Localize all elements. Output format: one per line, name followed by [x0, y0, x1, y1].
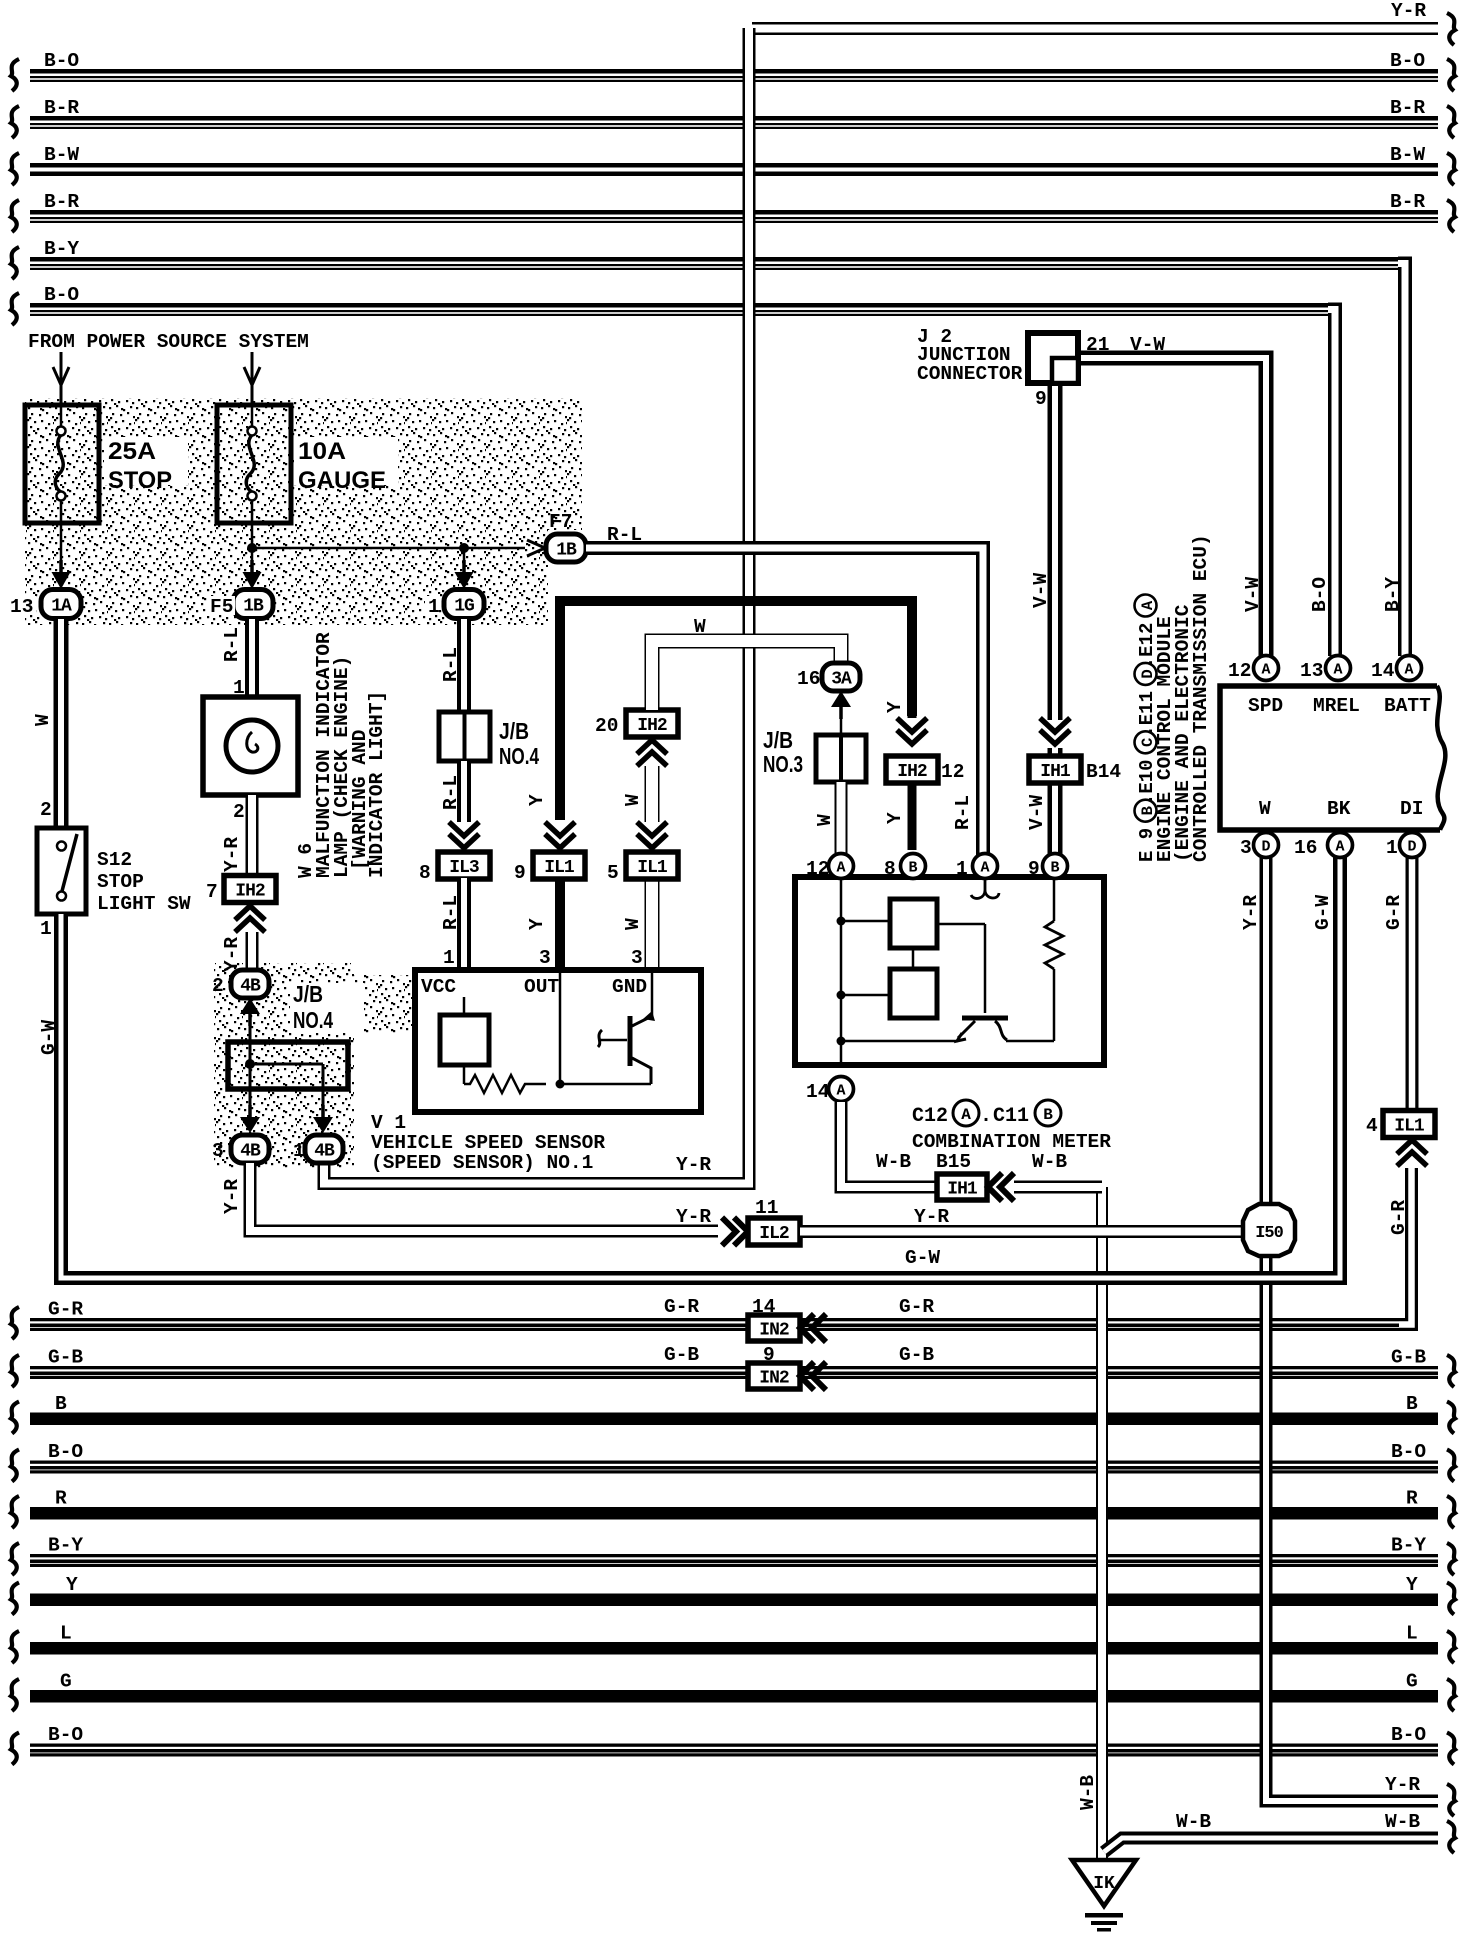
svg-text:13: 13: [10, 596, 33, 618]
svg-text:(SPEED SENSOR) NO.1: (SPEED SENSOR) NO.1: [371, 1152, 593, 1174]
junction block J/B NO.4 internal busbar: [228, 1042, 348, 1089]
svg-text:A: A: [961, 1106, 971, 1124]
svg-text:16: 16: [1294, 837, 1317, 859]
svg-text:G-R: G-R: [1383, 895, 1405, 930]
stop light switch S12: [37, 828, 86, 914]
svg-text:8: 8: [419, 862, 431, 884]
svg-text:SPD: SPD: [1248, 695, 1283, 717]
svg-text:G: G: [60, 1671, 72, 1693]
svg-text:OUT: OUT: [524, 976, 559, 998]
bus wire B (bottom): [30, 1413, 1438, 1426]
svg-text:A: A: [1139, 600, 1157, 610]
svg-text:L: L: [60, 1623, 72, 1645]
bus wire B-O (top row 6): [30, 303, 1328, 308]
svg-text:IN2: IN2: [759, 1321, 789, 1341]
svg-text:IN2: IN2: [759, 1369, 789, 1389]
svg-text:G-B: G-B: [664, 1344, 699, 1366]
bus wire G (bottom): [30, 1690, 1438, 1703]
chevron into IL2: [722, 1218, 736, 1246]
svg-text:G-B: G-B: [899, 1344, 934, 1366]
combination meter box: [795, 877, 1104, 1065]
svg-text:BK: BK: [1327, 798, 1351, 820]
svg-text:J/B: J/B: [293, 981, 323, 1007]
svg-text:1G: 1G: [454, 597, 474, 617]
svg-text:B-Y: B-Y: [1382, 577, 1404, 612]
svg-text:B-O: B-O: [1391, 1724, 1426, 1746]
svg-text:Y-R: Y-R: [676, 1206, 711, 1228]
svg-text:9: 9: [1035, 388, 1047, 410]
svg-text:G-R: G-R: [899, 1296, 934, 1318]
label 10A GAUGE: [294, 437, 398, 485]
connector 1 (1G): [444, 590, 484, 619]
svg-text:R-L: R-L: [440, 895, 462, 930]
svg-text:Y: Y: [526, 918, 548, 930]
svg-text:F7: F7: [549, 511, 572, 533]
wire 1G branch from gauge fuse: [463, 548, 466, 565]
svg-text:VCC: VCC: [421, 976, 456, 998]
svg-text:4B: 4B: [240, 977, 261, 997]
wire W-B IH1 to vertical: [1014, 1181, 1102, 1194]
svg-text:IH1: IH1: [1040, 762, 1071, 782]
wire fuse to connector 1A: [60, 523, 63, 565]
svg-text:1: 1: [1386, 837, 1398, 859]
bus wire B-O (top row 1): [30, 69, 1438, 74]
svg-text:IL1: IL1: [1394, 1117, 1425, 1137]
svg-text:MREL: MREL: [1313, 695, 1360, 717]
svg-text:W: W: [32, 714, 54, 726]
chevron into IH1 B14: [1040, 718, 1070, 732]
svg-text:C12: C12: [912, 1105, 948, 1128]
svg-text:Y-R: Y-R: [221, 1179, 243, 1214]
svg-text:G-B: G-B: [1391, 1347, 1426, 1369]
svg-text:B-O: B-O: [44, 284, 79, 306]
arrow into 3A: [831, 691, 851, 707]
bus wire B-Y (top row 5): [30, 257, 1398, 262]
bus wire G-R (bottom): [30, 1318, 1399, 1321]
svg-text:GND: GND: [612, 976, 647, 998]
label E9 E10 E11 E12 ENGINE CONTROL MODULE vertical: [1135, 595, 1159, 863]
junction block J/B NO.4 shading lower: [214, 963, 354, 1168]
svg-text:7: 7: [206, 881, 218, 903]
svg-text:12: 12: [941, 761, 964, 783]
wire R-L from IL3 to VSS pin 1: [457, 878, 471, 970]
svg-text:VEHICLE SPEED SENSOR: VEHICLE SPEED SENSOR: [371, 1132, 605, 1154]
svg-text:W-B: W-B: [1032, 1151, 1067, 1173]
junction connector J2: [1028, 333, 1078, 383]
svg-text:B14: B14: [1086, 761, 1121, 783]
svg-text:L: L: [1406, 1623, 1418, 1645]
svg-text:Y-R: Y-R: [676, 1154, 711, 1176]
svg-text:G-W: G-W: [38, 1020, 60, 1055]
svg-text:CONTROLLED TRANSMISSION ECU): CONTROLLED TRANSMISSION ECU): [1190, 534, 1212, 862]
meter internal resistor: [1053, 877, 1056, 921]
svg-text:Y: Y: [66, 1574, 78, 1596]
svg-text:13: 13: [1300, 660, 1323, 682]
svg-text:G: G: [1406, 1671, 1418, 1693]
svg-text:Y-R: Y-R: [221, 837, 243, 872]
wire branch to F7 1B: [252, 547, 525, 550]
svg-text:R-L: R-L: [607, 524, 642, 546]
svg-text:CONNECTOR: CONNECTOR: [917, 363, 1023, 385]
svg-text:B: B: [908, 860, 917, 877]
svg-text:B-O: B-O: [48, 1724, 83, 1746]
wire G-W from S12 across bottom to ECU pin 16: [61, 857, 1340, 1278]
meter internal gauge 2: [890, 969, 937, 1018]
svg-text:Y-R: Y-R: [914, 1206, 949, 1228]
label J/B NO.4 (lower): [290, 983, 364, 1033]
svg-text:A: A: [1335, 839, 1344, 856]
wire V-W from junction connector J2 pin 21 to ECU pin 12: [1076, 358, 1266, 656]
arrow into 4B: [240, 998, 260, 1014]
wire W from VSS GND up through IL1 and IH2: [645, 853, 660, 970]
wire W hairpin from IH2 to connector 3A: [652, 641, 841, 710]
svg-text:12: 12: [1228, 660, 1251, 682]
svg-text:G-R: G-R: [1388, 1200, 1410, 1235]
svg-text:W-B: W-B: [876, 1151, 911, 1173]
svg-text:W-B: W-B: [1077, 1775, 1099, 1810]
label 25A STOP: [104, 437, 188, 485]
VSS internal transistor: [651, 970, 654, 1018]
svg-text:IL3: IL3: [449, 858, 479, 878]
svg-text:C11: C11: [993, 1105, 1029, 1128]
fuse 10A GAUGE: [217, 405, 291, 523]
wire 4B to junction block NO.4: [249, 1014, 252, 1042]
svg-text:IH1: IH1: [947, 1180, 978, 1200]
svg-text:B: B: [1043, 1106, 1053, 1124]
wire G-R from bus up to connector IL1 pin 4 and ECU pin 1: [1399, 1168, 1412, 1325]
svg-text:Y: Y: [884, 701, 906, 713]
ground IK: [1072, 1860, 1136, 1906]
svg-text:W: W: [622, 918, 644, 930]
svg-text:5: 5: [607, 862, 619, 884]
wire Y thick from VSS OUT to combination meter pin 8: [555, 880, 565, 970]
svg-text:NO.4: NO.4: [293, 1007, 333, 1033]
wire G-W from ECU pin 16 down (right segment): [1333, 857, 1347, 1271]
svg-text:IH2: IH2: [897, 762, 927, 782]
svg-text:W-B: W-B: [1385, 1811, 1420, 1833]
junction node: [247, 543, 257, 553]
VSS internal regulator: [463, 997, 466, 1015]
svg-text:GAUGE: GAUGE: [298, 467, 386, 494]
svg-text:NO.3: NO.3: [763, 751, 803, 777]
wire Y-R from IL2 to I50: [800, 1225, 1260, 1238]
svg-text:1A: 1A: [51, 597, 72, 617]
wire W from 1A to stop light switch S12: [54, 619, 69, 828]
svg-text:3: 3: [1240, 837, 1252, 859]
connector F5 (1B): [233, 590, 273, 619]
svg-text:R: R: [55, 1488, 67, 1510]
svg-text:A: A: [1333, 662, 1342, 679]
svg-text:COMBINATION METER: COMBINATION METER: [912, 1131, 1111, 1153]
connector IH1 B14: [1029, 756, 1081, 783]
svg-text:A: A: [836, 1083, 845, 1100]
bus wire B-O (bottom): [30, 1461, 1438, 1464]
svg-text:4B: 4B: [240, 1142, 261, 1162]
svg-text:B: B: [1406, 1393, 1418, 1415]
wire 3A to junction block NO.3: [840, 707, 843, 735]
svg-text:R-L: R-L: [440, 647, 462, 682]
wire to connector 1 (4B): [322, 1089, 325, 1112]
VSS internal resistor: [464, 1075, 546, 1093]
svg-text:B-Y: B-Y: [44, 238, 79, 260]
svg-text:G-W: G-W: [1312, 895, 1334, 930]
svg-text:IL1: IL1: [544, 858, 575, 878]
svg-text:BATT: BATT: [1384, 695, 1431, 717]
svg-text:1B: 1B: [243, 597, 264, 617]
meter internal hook at pin 1: [971, 879, 999, 898]
svg-text:STOP: STOP: [97, 871, 144, 893]
svg-text:W: W: [814, 814, 836, 826]
bus wire Y (bottom): [30, 1594, 1438, 1607]
chevron into IH2 (Y wire): [897, 718, 927, 732]
bus wire G-B (bottom): [30, 1366, 1438, 1369]
bus wire B-O (bottom): [30, 1744, 1438, 1747]
chevron into IL1: [1397, 1140, 1427, 1154]
svg-text:B: B: [1050, 860, 1059, 877]
svg-text:20: 20: [595, 715, 618, 737]
svg-text:21: 21: [1086, 334, 1109, 356]
svg-text:B15: B15: [936, 1151, 971, 1173]
junction block J/B NO.3: [816, 735, 866, 782]
svg-text:D: D: [1261, 839, 1270, 856]
bus wire Y-R (top): [752, 22, 1438, 35]
meter internal transistor: [962, 1016, 1008, 1021]
svg-text:DI: DI: [1400, 798, 1423, 820]
bus wire B-R (top row 2): [30, 116, 1438, 121]
svg-text:INDICATOR LIGHT]: INDICATOR LIGHT]: [366, 691, 388, 878]
svg-text:W-B: W-B: [1176, 1811, 1211, 1833]
svg-text:IL1: IL1: [637, 858, 668, 878]
svg-text:B-O: B-O: [1390, 50, 1425, 72]
svg-text:W: W: [694, 616, 706, 638]
meter internal wiring to transistor: [937, 923, 985, 926]
bus wire R (bottom): [30, 1507, 1438, 1520]
svg-text:B-W: B-W: [44, 144, 79, 166]
chevron into IL3: [449, 822, 479, 836]
wire R-L from F7 to combination meter pin 1: [586, 548, 983, 856]
chevron out of IN2 (pointing left): [812, 1314, 826, 1342]
chevron into IH2 (W wire): [637, 740, 667, 754]
svg-text:Y: Y: [526, 794, 548, 806]
connector IH2 12: [886, 756, 938, 783]
svg-text:3: 3: [631, 947, 643, 969]
chevron into IH2: [235, 906, 265, 920]
wire W-B from connector IH1 B15 down to ground IK: [1096, 1187, 1108, 1860]
svg-text:9: 9: [514, 862, 526, 884]
svg-text:B-R: B-R: [44, 191, 79, 213]
chevron out of IH1 (pointing left): [1000, 1173, 1014, 1201]
svg-text:Y-R: Y-R: [221, 937, 243, 972]
wire R-L 1B to malfunction indicator lamp: [245, 619, 259, 697]
svg-text:IK: IK: [1093, 1874, 1115, 1894]
svg-text:IL2: IL2: [759, 1224, 789, 1244]
junction node to 1G: [459, 543, 469, 553]
svg-text:B-R: B-R: [1390, 97, 1425, 119]
svg-text:Y: Y: [884, 812, 906, 824]
chevron out of IN2 9 (pointing left): [812, 1362, 826, 1390]
svg-text:2: 2: [233, 801, 245, 823]
wire Y-R from ECU pin 3 down through I50 to bottom right: [1266, 857, 1438, 1801]
connector I50 octagon: [1243, 1204, 1295, 1256]
svg-text:V-W: V-W: [1130, 334, 1165, 356]
svg-text:G-W: G-W: [905, 1247, 940, 1269]
svg-text:B-R: B-R: [44, 97, 79, 119]
svg-text:G-B: G-B: [48, 1347, 83, 1369]
wire W-B from meter pin 14 to IH1 B15: [841, 1102, 935, 1187]
junction block J/B NO.4 (upper): [439, 712, 490, 761]
svg-text:B-R: B-R: [1390, 191, 1425, 213]
svg-text:IH2: IH2: [235, 882, 265, 902]
svg-text:1: 1: [443, 947, 455, 969]
svg-text:.: .: [980, 1105, 992, 1128]
meter internal left rail: [840, 877, 843, 1065]
bus wire B-W (top row 3): [30, 163, 1438, 168]
wire Y-R from connector 4B pin1 up and across top to right: [324, 28, 749, 1184]
svg-text:B-O: B-O: [48, 1441, 83, 1463]
svg-text:2: 2: [212, 975, 224, 997]
wire Y thick IH2 to meter pin 8: [908, 712, 917, 718]
svg-text:10A: 10A: [298, 438, 346, 465]
svg-text:G-R: G-R: [664, 1296, 699, 1318]
svg-text:V-W: V-W: [1026, 795, 1048, 830]
svg-text:R-L: R-L: [440, 775, 462, 810]
svg-text:Y-R: Y-R: [1385, 1774, 1420, 1796]
bus wire B-R (top row 4): [30, 210, 1438, 215]
svg-text:W: W: [622, 794, 644, 806]
wire R-L from J/B to IL3: [457, 761, 471, 822]
svg-text:G-R: G-R: [48, 1299, 83, 1321]
svg-text:B-Y: B-Y: [1391, 1535, 1426, 1557]
bus wire L (bottom): [30, 1642, 1438, 1655]
wire Y-R from 3(4B) to IL2: [250, 1163, 718, 1231]
svg-text:A: A: [836, 860, 845, 877]
svg-text:V 1: V 1: [371, 1112, 406, 1134]
svg-text:A: A: [1261, 662, 1270, 679]
svg-text:B-O: B-O: [44, 50, 79, 72]
svg-text:B: B: [55, 1393, 67, 1415]
bus wire B-Y (bottom): [30, 1554, 1438, 1557]
svg-text:3: 3: [539, 947, 551, 969]
svg-text:Y: Y: [1406, 1574, 1418, 1596]
connector 13 (1A): [41, 590, 81, 619]
wire Y-R from W6 to IH2: [246, 795, 259, 876]
svg-text:12: 12: [806, 858, 829, 880]
svg-text:Y-R: Y-R: [1391, 0, 1426, 22]
svg-text:W: W: [1259, 798, 1271, 820]
svg-text:R-L: R-L: [221, 627, 243, 662]
wire B-O from bus to ECU pin 13: [1328, 310, 1335, 657]
wire Y-R from IH2 to 4B: [246, 932, 259, 969]
vehicle speed sensor V1 box: [415, 970, 701, 1112]
svg-text:1: 1: [428, 596, 440, 618]
svg-text:8: 8: [884, 858, 896, 880]
svg-text:A: A: [980, 860, 989, 877]
wire Y thick below IH2: [908, 782, 917, 850]
VSS internal node: [556, 1080, 565, 1089]
svg-text:16: 16: [797, 668, 820, 690]
wire R-L from 1G to junction block NO.4: [457, 619, 471, 712]
fuse 25A STOP: [25, 405, 99, 523]
svg-text:14: 14: [806, 1081, 830, 1103]
svg-text:V-W: V-W: [1030, 573, 1052, 608]
svg-text:B-W: B-W: [1390, 144, 1425, 166]
svg-text:R-L: R-L: [952, 795, 974, 830]
svg-text:9: 9: [1028, 858, 1040, 880]
wire from power source to fuse 10A GAUGE: [251, 352, 254, 403]
svg-text:V-W: V-W: [1242, 577, 1264, 612]
svg-text:1: 1: [40, 918, 52, 940]
malfunction indicator lamp W6: [203, 697, 298, 795]
svg-text:NO.4: NO.4: [499, 743, 539, 769]
svg-text:J/B: J/B: [763, 727, 793, 753]
svg-text:1B: 1B: [556, 541, 577, 561]
wire from power source to fuse 25A STOP: [60, 352, 63, 403]
svg-text:2: 2: [40, 799, 52, 821]
wire V-W from junction connector J2 pin 9 down to IH1 and combination meter pin 9: [1048, 383, 1063, 720]
chevron into IL1 (W wire): [637, 822, 667, 836]
wire W from J/B NO.3 to meter pin 12: [835, 782, 848, 856]
svg-text:14: 14: [1371, 660, 1395, 682]
svg-text:4: 4: [1366, 1115, 1378, 1137]
junction block J/B shading around fuses: [25, 398, 582, 530]
svg-text:B-O: B-O: [1309, 577, 1331, 612]
svg-text:IH2: IH2: [637, 716, 667, 736]
svg-text:I50: I50: [1255, 1224, 1283, 1243]
svg-text:3: 3: [212, 1140, 224, 1162]
wire W-B bottom bus to ground IK: [1104, 1838, 1438, 1852]
svg-text:D: D: [1407, 839, 1416, 856]
svg-text:J/B: J/B: [499, 718, 529, 744]
svg-text:A: A: [1404, 662, 1413, 679]
svg-text:S12: S12: [97, 849, 132, 871]
wire B-Y from bus to ECU pin 14: [1398, 264, 1405, 657]
svg-text:FROM POWER SOURCE SYSTEM: FROM POWER SOURCE SYSTEM: [28, 331, 309, 353]
svg-text:STOP: STOP: [108, 467, 172, 494]
svg-text:B-Y: B-Y: [48, 1535, 83, 1557]
svg-text:Y-R: Y-R: [1240, 895, 1262, 930]
chevron into IL1 (Y wire): [545, 822, 575, 836]
svg-text:3A: 3A: [831, 670, 852, 690]
svg-text:R: R: [1406, 1488, 1418, 1510]
wire fuse to connector 1B with branch: [251, 523, 254, 565]
svg-text:25A: 25A: [108, 438, 156, 465]
meter internal gauge 1: [890, 899, 937, 948]
svg-text:LIGHT SW: LIGHT SW: [97, 893, 191, 915]
svg-text:F5: F5: [210, 596, 233, 618]
wire to connector 3 (4B): [249, 1089, 252, 1112]
engine control module ECU box: [1437, 686, 1445, 830]
svg-text:B-O: B-O: [1391, 1441, 1426, 1463]
svg-text:1: 1: [956, 858, 968, 880]
svg-text:4B: 4B: [314, 1142, 335, 1162]
